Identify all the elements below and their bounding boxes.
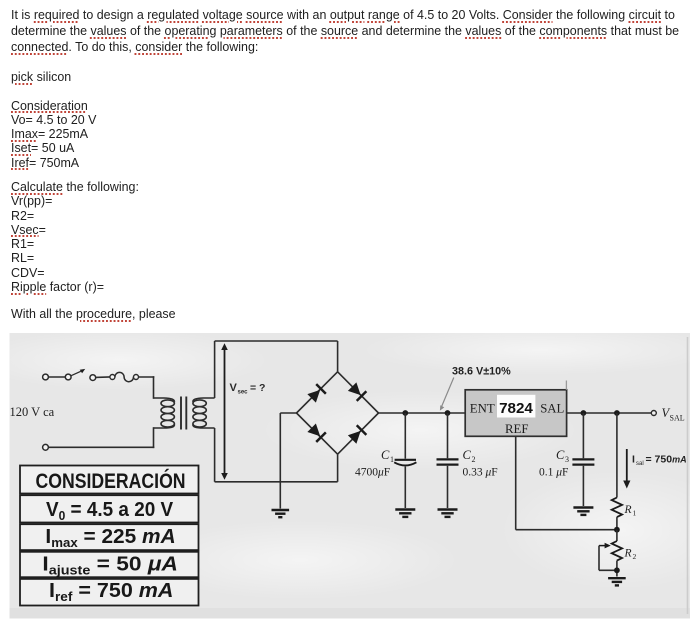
svg-text:R: R xyxy=(624,548,632,560)
svg-text:C: C xyxy=(556,448,565,462)
small stub above box corner xyxy=(565,381,567,390)
wire bridge arm bottom-left xyxy=(297,413,338,454)
svg-text:V0 = 4.5 a 20 V: V0 = 4.5 a 20 V xyxy=(46,498,174,523)
wire bottom rail to bridge bottom xyxy=(337,454,339,482)
svg-text:0.1 μF: 0.1 μF xyxy=(539,467,568,479)
wire wiper bypass drop xyxy=(598,546,600,571)
node dot C3 xyxy=(581,410,587,416)
wire bottom rail xyxy=(215,481,338,483)
node dot C2 xyxy=(445,410,451,416)
wire terminal A to switch xyxy=(48,376,65,378)
table row box V0 xyxy=(20,495,199,522)
svg-text:2: 2 xyxy=(472,455,476,464)
wire wiper bypass run xyxy=(599,569,617,571)
final line xyxy=(11,307,176,321)
regulator U1 box xyxy=(465,390,566,437)
svg-text:ENT: ENT xyxy=(470,401,495,415)
label VSAL xyxy=(662,406,685,423)
Vsec measurement arrow xyxy=(221,343,228,480)
fuse F1 xyxy=(115,372,134,381)
svg-text:3: 3 xyxy=(565,455,569,464)
svg-text:= ?: = ? xyxy=(250,382,265,394)
svg-text:7824: 7824 xyxy=(499,400,533,417)
output terminal VSAL xyxy=(651,411,656,416)
capacitor C3 xyxy=(572,413,594,506)
wire REF pin drop xyxy=(515,436,517,529)
ground GND2 xyxy=(395,510,415,517)
consideration list xyxy=(11,99,96,170)
resistor R1 xyxy=(612,498,622,518)
wire primary bottom riser xyxy=(153,428,155,447)
wire bridge arm top-left xyxy=(297,372,338,413)
svg-text:120 V ca: 120 V ca xyxy=(10,405,55,419)
wire: output rail xyxy=(567,412,651,414)
capacitor C1 xyxy=(394,413,416,508)
ground GND3 xyxy=(438,510,458,517)
svg-text:2: 2 xyxy=(633,552,637,561)
paragraph 1 xyxy=(11,7,679,55)
node label Vsec = ? xyxy=(230,382,266,396)
svg-text:sal: sal xyxy=(636,461,644,467)
diode D2 (top-right arm) xyxy=(347,382,366,401)
svg-text:SAL: SAL xyxy=(670,414,685,423)
row Iref xyxy=(49,579,173,603)
wire: R1 branch xyxy=(616,413,618,498)
wire: bridge positive rail to regulator xyxy=(379,412,466,414)
svg-text:0.33 μF: 0.33 μF xyxy=(463,467,498,479)
svg-text:= 750mA: = 750mA xyxy=(646,454,687,466)
wire top rail xyxy=(215,340,338,342)
row V0 xyxy=(46,498,174,523)
table row box Iajuste xyxy=(20,552,199,577)
leader arrow to input wire xyxy=(440,378,454,411)
pick silicon xyxy=(11,70,71,84)
right scan edge xyxy=(687,337,689,614)
svg-text:I: I xyxy=(632,454,635,466)
svg-text:R: R xyxy=(624,504,632,516)
svg-text:1: 1 xyxy=(633,509,637,518)
svg-text:V: V xyxy=(230,382,238,394)
wire switch to fuse xyxy=(95,376,109,378)
schematic gray background xyxy=(10,333,691,619)
row Imax xyxy=(45,525,175,550)
svg-text:C: C xyxy=(381,448,390,462)
label C1 4700uF xyxy=(355,448,394,479)
ground GND4 xyxy=(573,508,593,515)
resistor R2 (rheostat) xyxy=(612,541,622,561)
svg-text:C: C xyxy=(463,448,472,462)
label Isal = 750mA xyxy=(632,454,687,468)
wire REF feedback run xyxy=(516,529,617,531)
row Iajuste xyxy=(42,552,178,578)
wire bridge arm top-right xyxy=(338,372,379,413)
wire bridge negative stub xyxy=(280,412,296,414)
svg-text:38.6 V±10%: 38.6 V±10% xyxy=(452,366,511,378)
wire: R2 bottom xyxy=(616,561,618,577)
switch contact B xyxy=(65,374,71,380)
table header cell box xyxy=(20,466,199,494)
svg-text:CONSIDERACIÓN: CONSIDERACIÓN xyxy=(36,467,186,493)
svg-text:1: 1 xyxy=(390,455,394,464)
current arrow Isal xyxy=(623,449,630,489)
svg-text:REF: REF xyxy=(505,422,528,436)
svg-text:4700μF: 4700μF xyxy=(355,467,390,479)
transformer T1 secondary xyxy=(193,398,215,428)
label R2 xyxy=(624,548,637,562)
node dot R1/R2 xyxy=(614,527,620,533)
diode D4 (bottom-right arm) xyxy=(347,425,366,444)
ground GND5 xyxy=(608,578,626,585)
wiper arrow of R2 xyxy=(599,543,611,549)
diode D3 (left-bottom arm) xyxy=(307,423,326,442)
wire top rail to bridge top xyxy=(337,341,339,372)
header CONSIDERACION xyxy=(36,467,186,493)
table row box Imax xyxy=(20,524,199,550)
table row box Iref xyxy=(20,579,199,606)
transformer T1 primary xyxy=(154,398,175,428)
switch blade SW xyxy=(71,369,85,376)
capacitor C2 xyxy=(437,413,459,508)
wire bridge arm bottom-right xyxy=(338,413,379,454)
terminal F (bottom) xyxy=(43,444,49,450)
wire: R1 to node xyxy=(616,517,618,530)
ground GND1 xyxy=(272,510,290,517)
wire bottom return xyxy=(48,446,153,448)
wire fuse to corner xyxy=(139,376,154,378)
wire secondary top riser xyxy=(214,341,216,398)
transformer core xyxy=(181,397,186,430)
label R1 xyxy=(624,504,637,518)
diode D1 (left-top arm) xyxy=(307,384,326,403)
CONSIDERACION table xyxy=(20,466,199,606)
svg-text:sec: sec xyxy=(238,390,249,396)
svg-text:SAL: SAL xyxy=(540,401,564,415)
label C3 0.1uF xyxy=(539,448,569,479)
terminal A xyxy=(43,374,49,380)
node dot R2 bottom xyxy=(614,567,620,573)
calculate list xyxy=(11,180,139,294)
wire negative drop to ground xyxy=(279,413,281,509)
switch contact C xyxy=(90,375,96,381)
node dot C1 xyxy=(402,410,408,416)
label C2 0.33uF xyxy=(463,448,498,479)
wire: node to R2 xyxy=(616,530,618,541)
wire corner down to primary xyxy=(153,377,155,398)
wire secondary bottom riser xyxy=(214,428,216,482)
node dot R1 xyxy=(614,410,620,416)
